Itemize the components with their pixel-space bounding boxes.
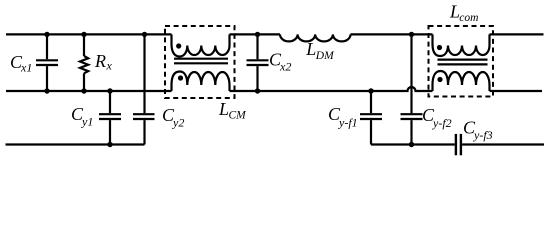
svg-text:x1: x1 — [20, 61, 32, 75]
Lcom bottom winding — [433, 71, 490, 91]
common-mode choke LCM dashed box — [165, 26, 235, 98]
capacitor Cx1 — [36, 34, 58, 91]
Lcom core lines — [438, 58, 488, 60]
node Cy1 top junction — [107, 88, 112, 93]
svg-text:L: L — [305, 39, 316, 59]
resistor Rx — [80, 34, 88, 91]
svg-text:CM: CM — [229, 110, 248, 122]
wire bottom-right ground rail right part — [462, 143, 544, 145]
svg-text:y1: y1 — [81, 115, 93, 129]
capacitor Cy-f1 — [360, 91, 382, 145]
svg-text:DM: DM — [315, 50, 335, 62]
capacitor Cy-f2 — [401, 34, 423, 144]
Lcom top winding — [433, 34, 490, 56]
node Cx2 top — [255, 32, 260, 37]
capacitor Cy-f3 (series, vertical plates) — [456, 134, 461, 155]
wire bottom-left ground rail — [6, 143, 145, 145]
svg-text:y2: y2 — [172, 116, 184, 130]
common-mode choke Lcom dashed box — [429, 26, 494, 97]
inductor LDM — [280, 34, 351, 41]
Lcom phase dot top — [437, 45, 442, 50]
capacitor Cy2 — [133, 34, 155, 144]
wire bottom-right ground rail left part — [371, 143, 455, 145]
node Cy-f1 top junction — [368, 88, 373, 93]
node Cx1 bottom — [44, 88, 49, 93]
node Cx1 top — [44, 32, 49, 37]
node Rx bottom — [81, 88, 86, 93]
wire top rail segment 1 — [6, 33, 172, 35]
svg-text:R: R — [94, 51, 106, 71]
LCM phase dot bottom — [178, 75, 183, 80]
node Cy2 top — [142, 32, 147, 37]
wire middle rail segment 3 — [490, 90, 543, 92]
wire middle rail segment 1 — [6, 90, 172, 92]
wire top rail segment 3 — [351, 33, 433, 35]
capacitor Cx2 — [247, 34, 269, 91]
svg-text:x: x — [106, 59, 113, 73]
wire top rail segment 2 — [230, 33, 281, 35]
LCM core lines — [174, 58, 228, 60]
wire middle rail segment 2 with hop over Cy-f2 — [230, 87, 433, 91]
node Cy-f2 bottom — [409, 142, 414, 147]
Lcom phase dot bottom — [437, 77, 442, 82]
LCM top winding — [172, 34, 230, 56]
capacitor Cy1 — [99, 91, 121, 145]
svg-text:y-f1: y-f1 — [338, 116, 358, 130]
svg-text:L: L — [218, 99, 229, 119]
node Cx2 bottom — [255, 88, 260, 93]
node dots top rail — [44, 32, 414, 148]
node Rx top — [81, 32, 86, 37]
svg-text:y-f2: y-f2 — [432, 116, 452, 130]
LCM phase dot top — [176, 43, 181, 48]
node Cy1 bottom — [107, 142, 112, 147]
node Cy-f2 top — [409, 32, 414, 37]
svg-text:com: com — [459, 12, 478, 24]
svg-text:y-f3: y-f3 — [473, 128, 493, 142]
wire top rail segment 4 — [490, 33, 544, 35]
svg-text:x2: x2 — [279, 60, 291, 74]
LCM bottom winding — [172, 72, 230, 92]
